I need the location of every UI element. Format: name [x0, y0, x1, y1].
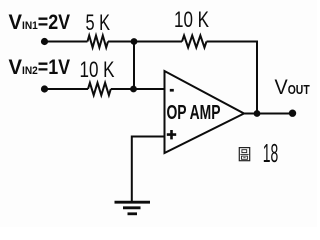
resistor R3 10K feedback [182, 36, 207, 48]
node input 2 terminal [41, 85, 48, 92]
svg-text:OP AMP: OP AMP [167, 102, 221, 124]
op-amp non-inverting input plus [167, 130, 176, 139]
wire node A to feedback [108, 41, 182, 43]
svg-text:18: 18 [263, 140, 279, 168]
wire output [244, 113, 293, 115]
svg-text:VIN2=1V: VIN2=1V [9, 56, 71, 79]
node Vout terminal [289, 110, 296, 117]
op-amp inverting input minus [170, 89, 174, 92]
svg-text:5 K: 5 K [86, 10, 111, 35]
wire feedback to corner [207, 42, 258, 114]
wire non-inverting input [132, 137, 165, 202]
node summing junction [130, 86, 137, 93]
svg-text:10 K: 10 K [80, 57, 115, 82]
wire input 1 horizontal [45, 41, 88, 43]
node output junction [254, 110, 261, 117]
resistor R2 10K [88, 83, 111, 95]
label figure character tu [239, 148, 249, 161]
svg-text:VIN1=2V: VIN1=2V [9, 11, 71, 34]
node A junction [131, 38, 138, 45]
wire node A down [133, 42, 135, 90]
resistor R1 5K [88, 36, 109, 48]
wire input 2 horizontal [45, 88, 89, 90]
svg-text:10 K: 10 K [174, 7, 209, 32]
node input 1 terminal [41, 38, 48, 45]
ground [115, 202, 151, 214]
op-amp U1 [165, 71, 245, 153]
wire summing node to inverting input [111, 88, 165, 90]
